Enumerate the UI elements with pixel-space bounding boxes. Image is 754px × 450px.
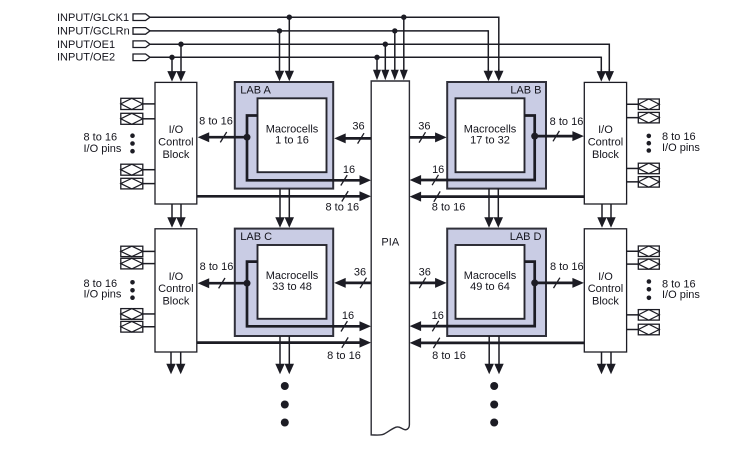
wire pin row2-left 2 xyxy=(143,263,155,265)
junction GLCK1/LAB A xyxy=(287,15,292,20)
input pin INPUT/GCLRn xyxy=(133,28,150,35)
wire LAB C downward (b) xyxy=(285,336,294,374)
continuation dot D1 xyxy=(490,382,498,390)
block LAB C xyxy=(235,229,333,336)
wire pin row1-right 4 xyxy=(627,181,639,183)
arrow LAB C to left I/O block xyxy=(198,278,247,288)
wire GCLRn branch into LAB A xyxy=(275,31,284,81)
arrow OE2 into right I/O block xyxy=(597,69,606,82)
arrow GCLRn into LAB B xyxy=(484,69,493,81)
junction LAB C feedback xyxy=(244,280,251,287)
block Macrocells 49 to 64 xyxy=(456,245,525,319)
I/O pins dots row2-left 3 xyxy=(130,295,135,300)
wire right I/O row1 to row2 (b) xyxy=(606,204,615,228)
arrow LAB D to right I/O block xyxy=(535,278,584,288)
block left I/O Control Block row2 xyxy=(155,229,197,352)
bus slash 36 (row2 right) xyxy=(419,278,425,288)
bus slash 16 (row1 right) xyxy=(432,175,438,185)
wire left I/O row1 to row2 (a) xyxy=(167,204,176,228)
svg-text:LAB C: LAB C xyxy=(240,231,272,243)
svg-text:LAB B: LAB B xyxy=(510,85,541,97)
wire LAB A to LAB C (b) xyxy=(285,189,294,228)
svg-text:I/O: I/O xyxy=(598,271,613,283)
wire INPUT/GLCK1 horizontal xyxy=(150,16,499,18)
wire INPUT/GCLRn drop to LAB B xyxy=(487,30,489,71)
arrow 8 to 16 right I/O to PIA (row2) xyxy=(410,338,585,348)
junction OE2/PIA xyxy=(374,55,379,60)
arrow 16 into PIA (row2 left) xyxy=(360,321,372,331)
block LAB A xyxy=(235,82,333,189)
svg-text:INPUT/OE1: INPUT/OE1 xyxy=(57,39,115,51)
arrow 8 to 16 left I/O to PIA (row1) xyxy=(197,191,371,201)
bus slash 8 to 16 bottom left (row2) xyxy=(342,337,348,347)
arrow 36 PIA to LAB C xyxy=(334,278,371,288)
svg-text:8 to 16: 8 to 16 xyxy=(662,131,696,143)
I/O pin symbol row2-left 1 xyxy=(121,246,143,256)
wire left I/O row2 downward (a) xyxy=(166,352,175,374)
wire pin row1-left 4 xyxy=(143,183,155,185)
continuation dot D3 xyxy=(490,419,498,427)
bus slash 16 (row1 left) xyxy=(341,175,347,185)
svg-text:8 to 16: 8 to 16 xyxy=(432,350,466,362)
svg-text:I/O: I/O xyxy=(169,271,184,283)
I/O pins dots row1-right 3 xyxy=(647,148,652,153)
arrow LAB A to left I/O block xyxy=(198,132,247,142)
I/O pins dots row1-left 1 xyxy=(130,133,135,138)
I/O pins dots row2-right 3 xyxy=(647,296,652,301)
junction LAB B feedback xyxy=(531,133,538,140)
svg-text:I/O: I/O xyxy=(169,124,184,136)
wire LAB C downward (a) xyxy=(275,336,284,374)
I/O pin symbol row2-left 3 xyxy=(121,309,143,320)
wire INPUT/OE1 horizontal xyxy=(150,43,609,45)
svg-text:Control: Control xyxy=(158,283,193,295)
I/O pins dots row2-right 2 xyxy=(647,287,652,292)
bus slash 16 (row2 left) xyxy=(341,321,347,331)
wire OE2 branch into left I/O block xyxy=(167,57,176,81)
wire pin row2-right 3 xyxy=(627,314,639,316)
svg-text:36: 36 xyxy=(354,266,366,278)
wire INPUT/GCLRn horizontal xyxy=(150,30,488,32)
svg-text:INPUT/OE2: INPUT/OE2 xyxy=(57,52,115,64)
arrow 8 to 16 left I/O to PIA (row2) xyxy=(197,338,371,348)
wire LAB B macrocell feedback xyxy=(419,116,535,181)
junction LAB D feedback xyxy=(531,279,538,286)
junction GCLRn/LAB A xyxy=(277,28,282,33)
wire LAB C macrocell feedback xyxy=(247,262,362,327)
svg-text:36: 36 xyxy=(419,266,431,278)
svg-text:I/O pins: I/O pins xyxy=(662,289,700,301)
arrow 8 to 16 right I/O to PIA (row1) xyxy=(410,192,585,202)
arrow GLCK1 into LAB B xyxy=(494,69,503,81)
bus slash 36 (row1 left) xyxy=(358,133,364,143)
wire INPUT/OE1 drop to right I/O block xyxy=(608,44,610,72)
bus slash 8 to 16 (A to I/O) xyxy=(220,132,226,142)
bus slash 8 to 16 bottom right (row1) xyxy=(434,191,440,201)
wire LAB B to LAB D (b) xyxy=(494,189,503,228)
svg-text:36: 36 xyxy=(352,120,364,132)
svg-text:I/O: I/O xyxy=(598,124,613,136)
I/O pins dots row2-left 1 xyxy=(130,280,135,285)
junction LAB A feedback xyxy=(244,134,251,141)
svg-text:Control: Control xyxy=(158,136,193,148)
I/O pin symbol row2-right 1 xyxy=(638,246,659,257)
svg-text:I/O pins: I/O pins xyxy=(662,142,700,154)
wire left I/O row1 to row2 (b) xyxy=(176,204,185,228)
block LAB D xyxy=(447,229,546,336)
svg-text:INPUT/GCLRn: INPUT/GCLRn xyxy=(57,26,130,38)
junction GCLRn/PIA xyxy=(392,28,397,33)
svg-text:8 to 16: 8 to 16 xyxy=(199,116,233,128)
wire pin row1-right 2 xyxy=(627,117,639,119)
wire INPUT/GLCK1 drop to LAB B xyxy=(498,17,500,72)
svg-text:33 to 48: 33 to 48 xyxy=(272,281,312,293)
svg-text:16: 16 xyxy=(432,310,444,322)
bus slash 8 to 16 (C to I/O) xyxy=(219,278,225,288)
continuation dot C2 xyxy=(281,401,289,409)
svg-text:8 to 16: 8 to 16 xyxy=(84,132,118,144)
wire pin row1-left 2 xyxy=(143,118,155,120)
I/O pin symbol row1-left 2 xyxy=(121,113,143,124)
svg-text:LAB D: LAB D xyxy=(510,231,542,243)
svg-text:36: 36 xyxy=(418,120,430,132)
input pin INPUT/OE1 xyxy=(133,41,150,48)
arrow 36 PIA to LAB D xyxy=(409,278,446,288)
svg-text:8 to 16: 8 to 16 xyxy=(550,116,584,128)
block LAB B xyxy=(447,82,546,189)
svg-text:8 to 16: 8 to 16 xyxy=(550,261,584,273)
input pin INPUT/OE2 xyxy=(133,54,150,61)
wire OE1 branch into left I/O block xyxy=(176,44,185,81)
block Macrocells 33 to 48 xyxy=(258,245,327,319)
I/O pin symbol row1-right 4 xyxy=(638,177,659,188)
wire pin row2-right 1 xyxy=(627,250,639,252)
arrow 16 into PIA (row1 right) xyxy=(410,175,422,185)
wire pin row1-left 3 xyxy=(143,169,155,171)
wire LAB D downward (a) xyxy=(485,336,494,374)
continuation dot C3 xyxy=(281,419,289,427)
wire pin row2-right 4 xyxy=(627,329,639,331)
wire LAB A to LAB C (a) xyxy=(275,189,284,228)
svg-text:I/O pins: I/O pins xyxy=(84,288,122,300)
I/O pins dots row1-left 3 xyxy=(130,149,135,154)
bus slash 36 (row1 right) xyxy=(419,132,425,142)
wire right I/O row1 to row2 (a) xyxy=(597,204,606,228)
I/O pin symbol row2-left 4 xyxy=(121,321,143,332)
bus slash 8 to 16 bottom left (row1) xyxy=(342,191,348,201)
I/O pin symbol row2-right 3 xyxy=(638,310,659,321)
bus slash 36 (row2 left) xyxy=(360,278,366,288)
wire OE2 branch into PIA xyxy=(373,57,381,80)
svg-text:16: 16 xyxy=(432,164,444,176)
block right I/O Control Block row2 xyxy=(584,229,626,352)
block left I/O Control Block row1 xyxy=(155,82,197,204)
svg-text:Block: Block xyxy=(592,296,619,308)
wire LAB A macrocell feedback xyxy=(247,116,362,181)
I/O pin symbol row2-right 4 xyxy=(638,324,659,335)
I/O pins dots row1-right 1 xyxy=(647,134,652,139)
svg-text:1 to 16: 1 to 16 xyxy=(275,135,309,147)
junction OE2/left I/O xyxy=(169,55,174,60)
bus slash 16 (row2 right) xyxy=(432,321,438,331)
I/O pin symbol row1-right 1 xyxy=(638,99,659,110)
continuation dot C1 xyxy=(281,382,289,390)
svg-text:8 to 16: 8 to 16 xyxy=(200,261,234,273)
junction OE1/PIA xyxy=(383,42,388,47)
wire right I/O row2 downward (a) xyxy=(597,352,606,374)
arrow 36 PIA to LAB A xyxy=(334,133,371,143)
continuation dot D2 xyxy=(490,401,498,409)
svg-text:16: 16 xyxy=(343,164,355,176)
wire LAB B to LAB D (a) xyxy=(484,189,493,228)
svg-text:8 to 16: 8 to 16 xyxy=(325,201,359,213)
svg-text:17 to 32: 17 to 32 xyxy=(470,135,510,147)
wire GCLRn branch into PIA xyxy=(391,31,399,80)
arrow 16 into PIA (row1 left) xyxy=(360,175,372,185)
wire left I/O row2 downward (b) xyxy=(176,352,185,374)
wire LAB D macrocell feedback xyxy=(419,262,535,327)
svg-text:Control: Control xyxy=(588,136,623,148)
svg-text:16: 16 xyxy=(342,310,354,322)
wire GLCK1 branch into PIA xyxy=(400,17,408,80)
block Macrocells 17 to 32 xyxy=(456,98,525,172)
svg-text:LAB A: LAB A xyxy=(240,85,271,97)
svg-text:INPUT/GLCK1: INPUT/GLCK1 xyxy=(57,12,129,24)
I/O pin symbol row2-left 2 xyxy=(121,258,143,269)
I/O pin symbol row1-left 4 xyxy=(121,178,143,189)
wire pin row1-left 1 xyxy=(143,103,155,105)
bus slash 8 to 16 (B to I/O) xyxy=(553,131,559,141)
svg-text:Control: Control xyxy=(588,283,623,295)
bus slash 8 to 16 bottom right (row2) xyxy=(433,338,439,348)
I/O pin symbol row1-left 3 xyxy=(121,164,143,175)
svg-text:8 to 16: 8 to 16 xyxy=(327,350,361,362)
wire OE1 branch into PIA xyxy=(381,44,389,80)
block PIA xyxy=(371,81,409,435)
svg-text:I/O pins: I/O pins xyxy=(84,143,122,155)
svg-text:Block: Block xyxy=(162,296,189,308)
svg-text:49 to 64: 49 to 64 xyxy=(470,281,510,293)
wire GLCK1 branch into LAB A xyxy=(285,17,294,81)
I/O pin symbol row2-right 2 xyxy=(638,259,659,269)
wire INPUT/OE2 drop to right I/O block xyxy=(600,57,602,71)
arrow LAB B to right I/O block xyxy=(535,131,584,141)
I/O pins dots row1-right 2 xyxy=(647,141,652,146)
input pin INPUT/GLCK1 xyxy=(133,14,150,21)
block Macrocells 1 to 16 xyxy=(258,98,327,172)
wire LAB D downward (b) xyxy=(494,336,503,374)
junction GLCK1/PIA xyxy=(401,15,406,20)
wire pin row2-right 2 xyxy=(627,263,639,265)
block right I/O Control Block row1 xyxy=(584,82,626,204)
arrow OE1 into right I/O block xyxy=(605,69,614,82)
arrow 16 into PIA (row2 right) xyxy=(410,321,422,331)
wire right I/O row2 downward (b) xyxy=(606,352,615,374)
I/O pin symbol row1-right 2 xyxy=(638,112,659,123)
svg-text:Block: Block xyxy=(592,149,619,161)
wire pin row2-left 1 xyxy=(143,250,155,252)
wire pin row2-left 4 xyxy=(143,326,155,328)
svg-text:8 to 16: 8 to 16 xyxy=(432,201,466,213)
svg-text:PIA: PIA xyxy=(381,236,399,248)
I/O pin symbol row1-right 3 xyxy=(638,163,659,174)
bus slash 8 to 16 (D to I/O) xyxy=(554,278,560,288)
I/O pin symbol row1-left 1 xyxy=(121,98,143,109)
wire INPUT/OE2 horizontal xyxy=(150,56,601,58)
wire pin row1-right 3 xyxy=(627,167,639,169)
wire pin row2-left 3 xyxy=(143,313,155,315)
I/O pins dots row2-left 2 xyxy=(130,288,135,293)
I/O pins dots row1-left 2 xyxy=(130,141,135,146)
svg-text:Block: Block xyxy=(162,149,189,161)
wire pin row1-right 1 xyxy=(627,103,639,105)
I/O pins dots row2-right 1 xyxy=(647,279,652,284)
arrow 36 PIA to LAB B xyxy=(409,132,446,142)
junction OE1/left I/O xyxy=(178,42,183,47)
